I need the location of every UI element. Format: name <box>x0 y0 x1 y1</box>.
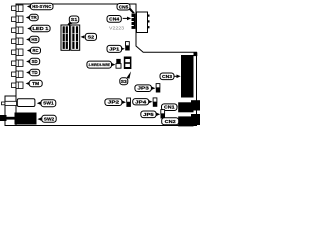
svg-text:HS-SYNC: HS-SYNC <box>32 4 51 9</box>
svg-text:CN3: CN3 <box>162 74 173 79</box>
svg-text:SW2: SW2 <box>44 116 55 121</box>
svg-text:JP1: JP1 <box>109 46 120 51</box>
svg-text:JP5: JP5 <box>143 112 154 117</box>
svg-text:JP4: JP4 <box>135 99 147 104</box>
svg-text:JP3: JP3 <box>137 86 149 91</box>
svg-text:LED 1: LED 1 <box>32 26 49 31</box>
svg-text:HS: HS <box>31 37 37 42</box>
svg-text:SW1: SW1 <box>43 101 54 106</box>
svg-text:S1: S1 <box>71 17 78 22</box>
svg-text:CN4: CN4 <box>109 16 120 21</box>
svg-text:CN5: CN5 <box>119 4 129 9</box>
svg-text:TM: TM <box>32 81 39 86</box>
svg-text:CN1: CN1 <box>164 105 175 110</box>
svg-text:RC: RC <box>33 48 39 53</box>
svg-text:S3: S3 <box>121 79 128 84</box>
svg-text:CN2: CN2 <box>165 119 177 124</box>
svg-text:JP2: JP2 <box>108 100 120 105</box>
svg-text:S2: S2 <box>88 34 95 39</box>
svg-text:2-WIRE/4-WIRE: 2-WIRE/4-WIRE <box>88 63 110 67</box>
svg-text:TR: TR <box>31 15 38 20</box>
svg-text:TD: TD <box>32 70 38 75</box>
svg-text:SD: SD <box>32 59 38 64</box>
svg-text:V2223: V2223 <box>109 26 124 32</box>
